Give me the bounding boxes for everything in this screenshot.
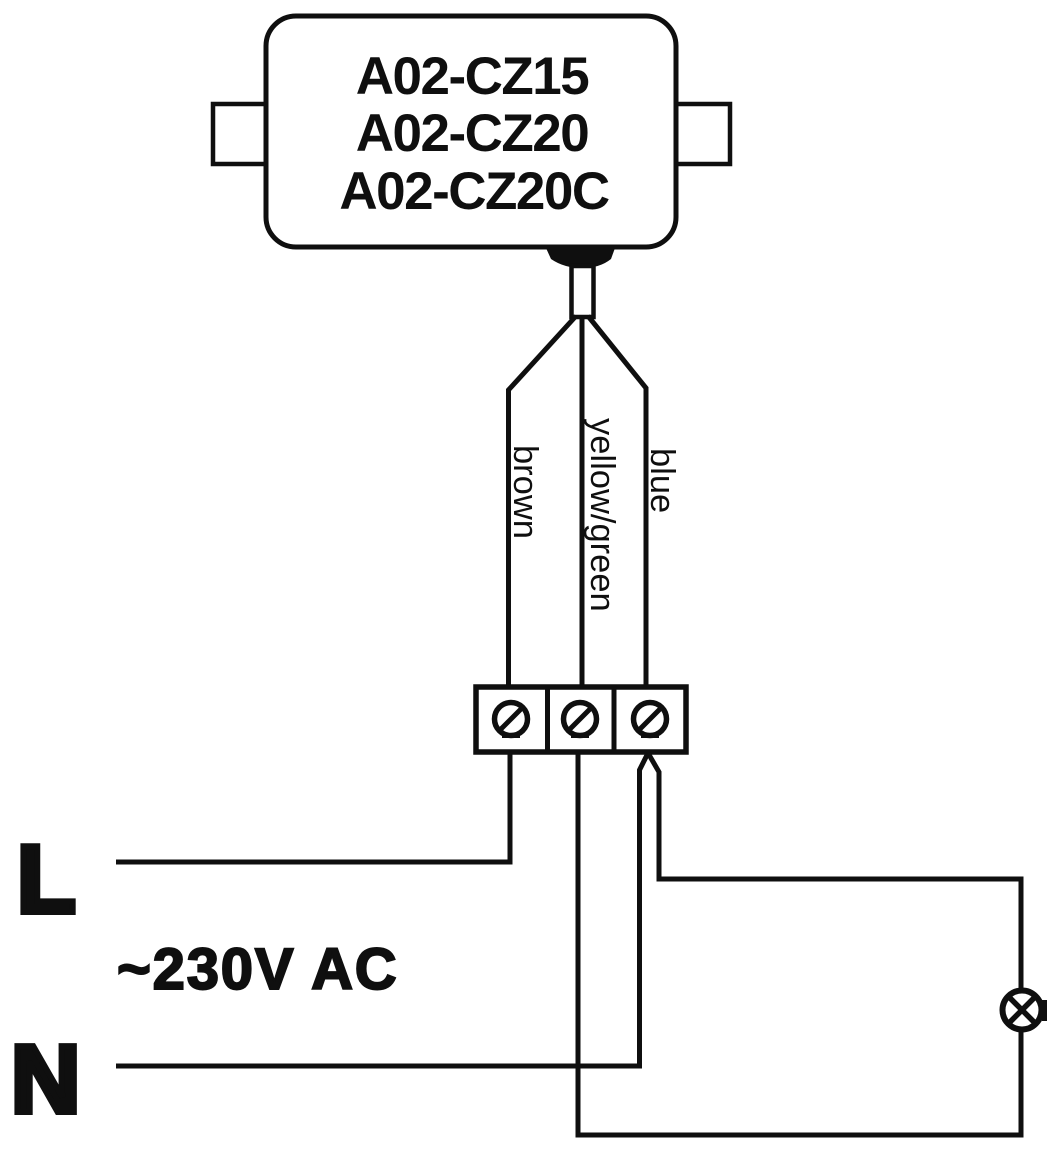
wire middle to lamp bottom [578,752,1021,1135]
cable sheath [572,266,594,317]
wire N [116,1064,642,1069]
right mounting tab [676,104,730,164]
terminal divider 1 [545,687,550,752]
terminal block TB1 [476,687,686,752]
wire brown (diagonal+vertical) [509,316,577,690]
svg-text:blue: blue [643,448,681,513]
lamp E1 [1003,991,1045,1030]
device box U1 [266,16,676,247]
svg-text:N: N [11,1026,80,1133]
svg-text:L: L [17,826,76,933]
svg-text:A02-CZ15: A02-CZ15 [356,47,589,106]
wire fork right branch to lamp top [648,753,1021,991]
cable gland (black bushing) [546,248,615,268]
left mounting tab [213,104,266,164]
screw 2 [564,703,597,736]
svg-text:yellow/green: yellow/green [583,418,621,612]
svg-text:~230V AC: ~230V AC [117,937,398,1002]
wire fork left branch to N [640,753,649,1066]
wire yellow/green (vertical) [580,318,585,690]
svg-text:A02-CZ20: A02-CZ20 [356,104,589,163]
svg-text:brown: brown [506,445,544,539]
svg-text:A02-CZ20C: A02-CZ20C [339,162,608,221]
wire L (left terminal to L) [116,752,510,862]
screw 3 [634,703,667,736]
terminal divider 2 [612,687,617,752]
wire blue (diagonal+vertical) [588,316,646,690]
screw 1 [495,703,528,736]
